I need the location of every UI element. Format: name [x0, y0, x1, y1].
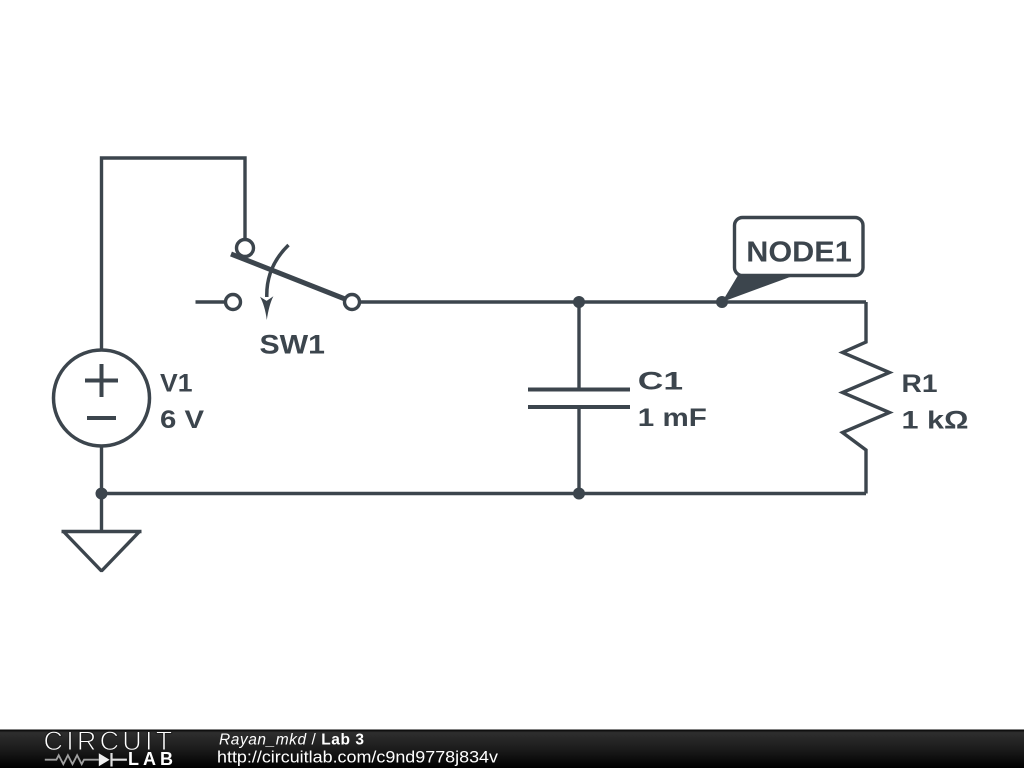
svg-text:1 kΩ: 1 kΩ: [902, 407, 969, 435]
svg-text:V1: V1: [160, 370, 193, 398]
svg-text:LAB: LAB: [128, 749, 177, 768]
svg-text:Rayan_mkd / Lab 3: Rayan_mkd / Lab 3: [219, 732, 364, 749]
svg-text:NODE1: NODE1: [746, 236, 852, 268]
svg-text:SW1: SW1: [260, 330, 326, 360]
svg-text:C1: C1: [638, 368, 683, 396]
svg-text:http://circuitlab.com/c9nd9778: http://circuitlab.com/c9nd9778j834v: [217, 749, 499, 767]
svg-text:R1: R1: [902, 370, 938, 398]
svg-text:6 V: 6 V: [160, 406, 204, 434]
svg-text:1 mF: 1 mF: [638, 404, 707, 432]
